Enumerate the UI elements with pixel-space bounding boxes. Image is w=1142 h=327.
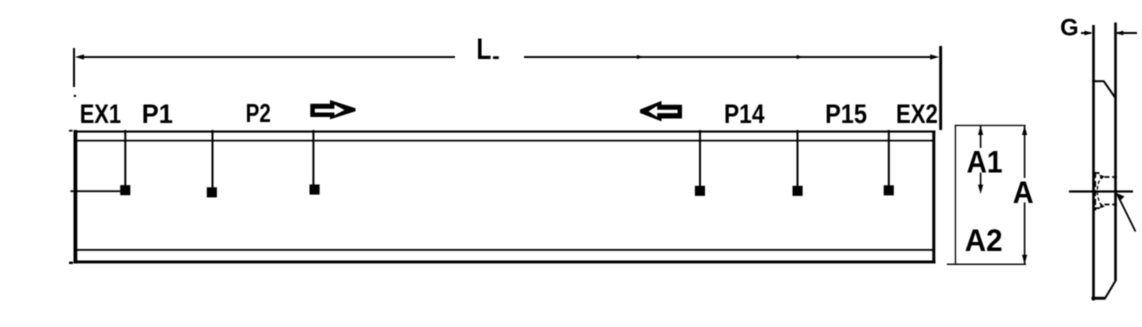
svg-text:L: L <box>476 33 491 66</box>
svg-text:P2: P2 <box>246 98 271 128</box>
svg-text:P1: P1 <box>142 99 173 129</box>
svg-text:A2: A2 <box>965 222 1003 258</box>
svg-text:A1: A1 <box>967 144 1003 180</box>
svg-text:EX2: EX2 <box>896 99 938 129</box>
svg-text:P14: P14 <box>724 99 765 129</box>
svg-text:P15: P15 <box>825 99 867 129</box>
svg-text:G: G <box>1060 14 1079 41</box>
svg-text:EX1: EX1 <box>80 99 121 129</box>
svg-text:A: A <box>1013 174 1034 210</box>
